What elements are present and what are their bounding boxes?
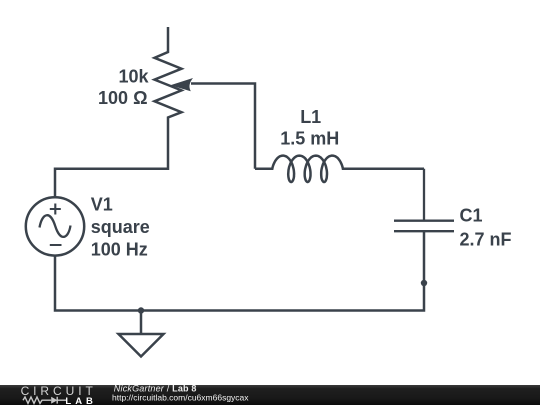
svg-text:V1: V1 [91,195,113,215]
svg-text:1.5 mH: 1.5 mH [280,129,339,149]
svg-text:L1: L1 [300,107,321,127]
svg-text:100 Hz: 100 Hz [91,240,148,260]
svg-text:http://circuitlab.com/cu6xm66s: http://circuitlab.com/cu6xm66sgycax [112,393,249,403]
svg-text:2.7 nF: 2.7 nF [460,230,512,250]
svg-text:C1: C1 [460,206,483,226]
svg-text:100 Ω: 100 Ω [98,88,147,108]
svg-text:LAB: LAB [65,396,97,405]
svg-text:square: square [91,217,150,237]
svg-text:10k: 10k [118,67,149,87]
